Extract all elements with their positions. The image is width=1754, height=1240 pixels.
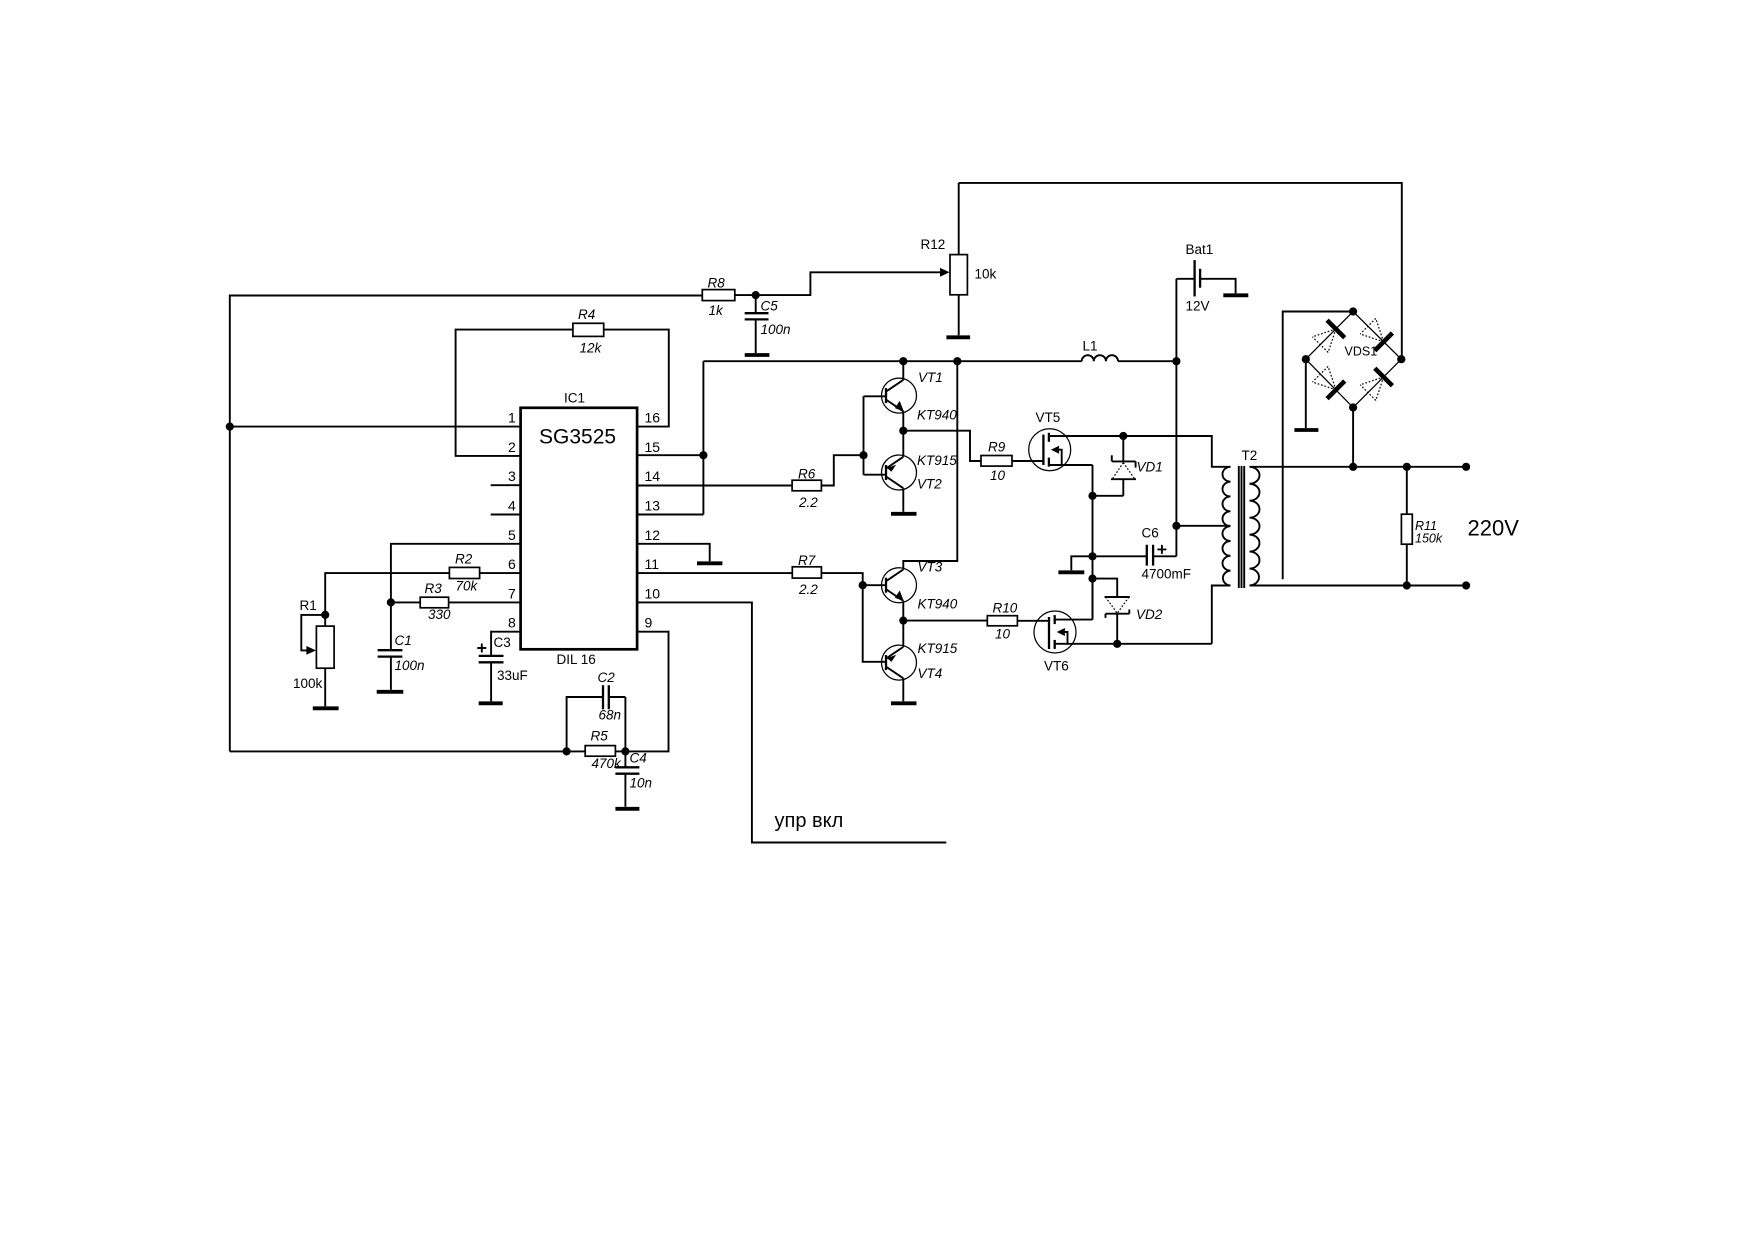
- diode D-BL: [1313, 366, 1336, 389]
- node E (pin15 junction): [699, 451, 707, 459]
- wire center tap to T2: [1176, 525, 1230, 527]
- wire pin 7 to R3: [449, 601, 521, 603]
- svg-text:12: 12: [645, 527, 661, 543]
- wire R5 to C4 node: [615, 750, 625, 752]
- IC IC1 SG3525 (pin numbers 1-16): [508, 391, 660, 668]
- svg-text:1: 1: [508, 410, 516, 426]
- node F (VT3 base): [859, 581, 867, 589]
- inductor L1: [1082, 339, 1118, 362]
- resistor R10: [987, 601, 1017, 642]
- ground (VT2): [891, 512, 917, 516]
- wire R7 to VT3/VT4 base bus: [821, 573, 862, 585]
- svg-text:C5: C5: [761, 299, 779, 314]
- svg-text:9: 9: [645, 615, 653, 631]
- ground (VDS1): [1294, 428, 1318, 432]
- svg-text:15: 15: [645, 439, 661, 455]
- svg-text:220V: 220V: [1468, 516, 1520, 541]
- zener diode VD1: [1111, 436, 1163, 496]
- wire pin 8 to C3: [491, 632, 520, 656]
- svg-text:10: 10: [995, 627, 1011, 642]
- svg-text:VD2: VD2: [1136, 607, 1163, 622]
- node Z (R11 top): [1403, 463, 1411, 471]
- wire pin 10 to upr vkl output: [637, 602, 946, 842]
- svg-text:C4: C4: [630, 751, 647, 766]
- svg-text:11: 11: [645, 556, 660, 572]
- svg-text:R12: R12: [921, 237, 946, 252]
- wire bridge bottom corner to secondary top: [1352, 408, 1354, 467]
- resistor R6: [792, 467, 821, 511]
- svg-text:68n: 68n: [599, 708, 622, 723]
- svg-text:KT915: KT915: [918, 641, 958, 656]
- node V (bridge right corner): [1397, 355, 1405, 363]
- svg-text:5: 5: [508, 527, 516, 543]
- svg-text:R5: R5: [591, 729, 609, 744]
- wire R8 to R12 wiper jog: [735, 272, 940, 295]
- svg-text:7: 7: [508, 585, 516, 601]
- svg-text:DIL 16: DIL 16: [557, 652, 596, 667]
- wire VT3 collector riser: [903, 361, 957, 569]
- svg-text:2.2: 2.2: [798, 495, 818, 510]
- node Y (secondary top / bridge): [1349, 463, 1357, 471]
- svg-text:10: 10: [645, 585, 661, 601]
- wire base bus VT3 to VT4: [863, 585, 886, 662]
- svg-text:C2: C2: [598, 670, 616, 685]
- wire VT4 emitter up: [902, 621, 904, 647]
- wire VD1 anode to source column: [1093, 495, 1124, 497]
- wire pin 4 stub: [491, 514, 521, 516]
- svg-text:10n: 10n: [630, 776, 653, 791]
- node K (VT1/VT2 emitters, R9): [899, 427, 907, 435]
- wire pin 2 to R4 left leg: [456, 330, 573, 456]
- svg-text:KT940: KT940: [917, 408, 957, 423]
- capacitor C6: [1093, 526, 1192, 582]
- svg-text:3: 3: [508, 468, 516, 484]
- wire pin 12 to ground: [637, 544, 710, 562]
- wire pin 11 to R7: [637, 572, 792, 574]
- node I (VT1/VT2 base bus): [859, 451, 867, 459]
- svg-text:VT1: VT1: [918, 370, 943, 385]
- svg-text:16: 16: [645, 410, 661, 426]
- wire node K to R9: [903, 431, 981, 461]
- capacitor C2: [567, 670, 626, 751]
- wire battery column: [1175, 279, 1177, 526]
- wire VT1 collector to rail: [902, 361, 904, 380]
- svg-text:VT4: VT4: [918, 666, 943, 681]
- wire VT5 drain to T2 primary top: [1123, 436, 1230, 467]
- node G (R5 left / C2): [563, 747, 571, 755]
- node terminal 220V bottom: [1462, 581, 1470, 589]
- svg-text:R4: R4: [578, 307, 595, 322]
- svg-text:100n: 100n: [761, 322, 791, 337]
- diode D-BR: [1360, 377, 1383, 400]
- diode D-TL: [1313, 329, 1336, 352]
- svg-text:KT915: KT915: [917, 453, 957, 468]
- svg-text:2.2: 2.2: [798, 582, 818, 597]
- svg-text:VT5: VT5: [1036, 410, 1061, 425]
- wire VT3 emitter down: [902, 601, 904, 621]
- ground (R1): [313, 706, 339, 710]
- svg-text:470k: 470k: [592, 756, 623, 771]
- svg-text:10k: 10k: [975, 267, 997, 282]
- node H (R5 right / C4 / pin9): [621, 747, 629, 755]
- potentiometer R1: [293, 598, 334, 706]
- svg-text:VT2: VT2: [917, 477, 942, 492]
- zener diode VD2: [1093, 579, 1163, 644]
- capacitor C3: [477, 635, 527, 701]
- potentiometer R12: [921, 237, 997, 295]
- node terminal 220V top: [1462, 463, 1470, 471]
- wire T2 secondary top lead: [1250, 466, 1467, 468]
- capacitor C4: [615, 751, 652, 807]
- wire T2 secondary bottom lead: [1250, 585, 1467, 587]
- node O (VD2 branch): [1088, 575, 1096, 583]
- capacitor C1: [378, 602, 425, 689]
- transistor VT4 (KT915): [882, 641, 958, 681]
- svg-text:C6: C6: [1142, 526, 1159, 541]
- wire R4 right leg to pin 16: [604, 330, 669, 427]
- wire VT6 drain up to node O: [1092, 579, 1094, 620]
- node N (C6 junction): [1088, 552, 1096, 560]
- node M (VD1 / VT5 source column): [1088, 492, 1096, 500]
- svg-text:KT940: KT940: [918, 597, 958, 612]
- svg-text:VT3: VT3: [918, 560, 943, 575]
- svg-text:33uF: 33uF: [497, 668, 528, 683]
- wire VT1 emitter to node: [902, 411, 904, 430]
- wire ground hook: [1071, 556, 1092, 570]
- resistor R3: [420, 581, 451, 622]
- node A (pin1 / left vertical): [226, 423, 234, 431]
- svg-text:6: 6: [508, 556, 516, 572]
- svg-text:R7: R7: [798, 553, 816, 568]
- transformer T2: [1223, 448, 1260, 588]
- resistor R4: [573, 307, 604, 356]
- svg-text:10: 10: [990, 468, 1006, 483]
- ground (VT4): [891, 701, 917, 705]
- wire pin 15 to rail drop: [637, 454, 703, 456]
- wire pin 13 to rail drop: [637, 514, 703, 516]
- svg-text:R10: R10: [993, 601, 1018, 616]
- node P (center tap): [1172, 522, 1180, 530]
- node J (VT1 collector / rail): [899, 357, 907, 365]
- node D (R1 top): [321, 611, 329, 619]
- node T (VD2 / bottom rail): [1113, 640, 1121, 648]
- svg-text:VD1: VD1: [1137, 460, 1163, 475]
- svg-text:R9: R9: [988, 440, 1006, 455]
- svg-text:T2: T2: [1242, 448, 1258, 463]
- node AA (R11 bottom): [1403, 581, 1411, 589]
- ground (R12): [946, 335, 970, 339]
- node L (VT5 drain / VD1): [1119, 432, 1127, 440]
- node Q (rail / battery column): [1172, 357, 1180, 365]
- wire R6 to VT1/VT2 base bus: [821, 455, 863, 485]
- ground (C5): [745, 353, 770, 357]
- wire bridge top corner to dead-end drop: [1283, 312, 1353, 580]
- ground (C1): [377, 690, 404, 694]
- svg-text:8: 8: [508, 615, 516, 631]
- diode D-TR: [1360, 318, 1383, 341]
- svg-text:VDS1: VDS1: [1345, 345, 1378, 359]
- wire R3 to node C: [391, 601, 420, 603]
- svg-text:R8: R8: [708, 276, 726, 291]
- wire R2 to R1 top: [325, 573, 449, 615]
- resistor R7: [792, 553, 821, 597]
- svg-text:R6: R6: [798, 467, 816, 482]
- wire base bus vertical VT1/VT2: [864, 396, 887, 474]
- wire R10 to VT6 gate: [1017, 620, 1049, 622]
- node W (bridge left corner): [1302, 355, 1310, 363]
- wire R9 to VT5 gate: [1012, 460, 1043, 462]
- svg-text:100n: 100n: [395, 658, 425, 673]
- svg-text:70k: 70k: [456, 579, 479, 594]
- wire VT5 source column: [1092, 465, 1094, 620]
- wire top rail to bridge right corner: [959, 183, 1402, 359]
- node C (pin5/pin7/C1): [387, 598, 395, 606]
- wire VT2 collector to ground: [902, 488, 904, 512]
- svg-text:4: 4: [508, 498, 516, 514]
- svg-text:C1: C1: [395, 633, 412, 648]
- node R (rail / VT3 collector riser): [953, 357, 961, 365]
- node S (VT3/VT4 emitters, R10): [899, 617, 907, 625]
- transistor VT2 (KT915): [882, 453, 958, 492]
- MOSFET VT5: [1029, 410, 1124, 471]
- svg-text:R1: R1: [300, 598, 317, 613]
- wire VT4 collector to ground: [902, 678, 904, 701]
- svg-text:R2: R2: [455, 552, 473, 567]
- resistor R9: [981, 440, 1012, 484]
- ground (center): [1058, 570, 1084, 574]
- transistor VT3 (KT940): [863, 560, 958, 612]
- svg-text:SG3525: SG3525: [539, 426, 616, 449]
- wire pin 5 down to node C: [391, 544, 521, 603]
- wire bottom feedback row to R5: [230, 750, 567, 752]
- wire +12V rail: [703, 360, 1081, 362]
- wire pin 3 stub: [491, 484, 521, 486]
- wire bottom row to R5: [567, 750, 586, 752]
- wire R12 bottom: [958, 295, 960, 336]
- resistor R5: [585, 729, 622, 772]
- diode bridge VDS1: [1306, 312, 1402, 408]
- node X (bridge bottom corner): [1349, 403, 1357, 411]
- wire L1 to battery column: [1118, 360, 1176, 362]
- ground (pin 12): [697, 561, 722, 565]
- wire pin 1 to left vertical: [230, 426, 521, 428]
- resistor R11: [1401, 467, 1442, 586]
- svg-text:IC1: IC1: [564, 391, 585, 406]
- wire pin 6 to R2: [480, 572, 521, 574]
- capacitor C5: [745, 295, 791, 353]
- svg-text:150k: 150k: [1415, 532, 1443, 546]
- svg-text:12k: 12k: [580, 341, 603, 356]
- svg-text:Bat1: Bat1: [1186, 242, 1214, 257]
- svg-text:2: 2: [508, 439, 516, 455]
- node U (bridge top corner): [1349, 307, 1357, 315]
- svg-text:C3: C3: [494, 635, 511, 650]
- MOSFET VT6: [1034, 611, 1212, 674]
- svg-text:R3: R3: [425, 581, 443, 596]
- svg-text:L1: L1: [1083, 339, 1098, 354]
- svg-text:1k: 1k: [709, 303, 725, 318]
- battery Bat1: [1176, 242, 1235, 314]
- svg-text:VT6: VT6: [1044, 659, 1069, 674]
- wire node S to R10: [903, 620, 987, 622]
- wire top-left loop: feedback from pin 1 up and across to R8: [230, 296, 703, 752]
- wire bridge left corner to ground: [1305, 359, 1307, 428]
- wire C6 to center tap node: [1175, 526, 1177, 557]
- svg-text:330: 330: [428, 607, 451, 622]
- svg-text:12V: 12V: [1186, 299, 1210, 314]
- ground (Bat1): [1223, 293, 1248, 297]
- resistor R2: [449, 552, 479, 594]
- wire pin 9 down to R5 node: [625, 632, 668, 752]
- resistor R8: [702, 276, 735, 319]
- svg-text:14: 14: [645, 468, 661, 484]
- wire VT2 emitter up: [902, 431, 904, 457]
- wire R12 top to top rail: [958, 183, 960, 255]
- wire bottom rail to T2 primary bottom: [1212, 586, 1231, 644]
- wire rail drop vertical: [702, 361, 704, 514]
- ground (C3): [479, 701, 503, 705]
- svg-text:4700mF: 4700mF: [1142, 567, 1192, 582]
- svg-text:13: 13: [645, 498, 661, 514]
- ground (C4): [615, 807, 639, 811]
- svg-text:упр вкл: упр вкл: [775, 810, 844, 832]
- node B (R8/C5 junction): [752, 291, 760, 299]
- wire pin 14 to R6: [637, 485, 792, 487]
- transistor VT1 (KT940): [882, 370, 958, 423]
- svg-text:100k: 100k: [293, 676, 323, 691]
